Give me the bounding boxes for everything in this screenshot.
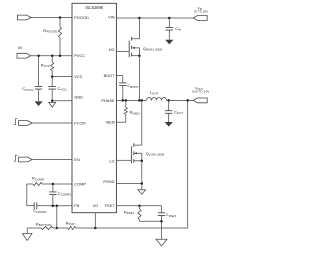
svg-text:BOOT: BOOT <box>104 73 116 78</box>
terminal VIN flag <box>193 6 208 20</box>
pin VIN <box>108 14 115 19</box>
wire VOUT feedback riser <box>187 100 189 228</box>
wire ISEN <box>116 121 125 123</box>
resistor RPGOOD <box>43 18 61 56</box>
wire EN <box>32 159 72 161</box>
node divider junction <box>56 227 59 230</box>
pin VO <box>92 203 98 208</box>
pin ISEN <box>106 120 115 125</box>
pin PHASE <box>101 98 115 103</box>
wire VO feedback bottom <box>76 227 188 229</box>
node phase/source junction <box>138 99 141 102</box>
svg-text:COUT: COUT <box>174 109 183 115</box>
node FB drop junction <box>56 204 59 207</box>
pin PGND <box>103 179 114 184</box>
capacitor COUT <box>165 100 183 122</box>
svg-text:CCOMP2: CCOMP2 <box>33 208 47 214</box>
wire COMP rail <box>42 183 72 185</box>
node phase/RISEN junction <box>125 99 128 102</box>
node phase/CBOOT junction <box>122 99 125 102</box>
terminal VOUT flag <box>192 86 209 102</box>
node VIN/drain junction <box>138 17 141 20</box>
wire PGOOD <box>31 17 72 19</box>
capacitor CVCC <box>49 77 68 101</box>
svg-text:QLOW_SIDE: QLOW_SIDE <box>146 151 165 157</box>
svg-text:PGND: PGND <box>103 179 114 184</box>
pin BOOT <box>104 73 116 78</box>
wire 5V rail to PVCC <box>31 55 72 57</box>
pin UG <box>109 47 115 52</box>
resistor RBOTTOM <box>27 221 53 229</box>
svg-text:CCOMP1: CCOMP1 <box>58 191 72 197</box>
pin PGOOD <box>74 15 89 20</box>
svg-text:RBOTTOM: RBOTTOM <box>36 221 52 227</box>
pin FB <box>74 203 79 208</box>
svg-text:3V TO 25V: 3V TO 25V <box>194 9 208 13</box>
svg-text:RFSET: RFSET <box>124 210 135 216</box>
ground CIN (solid) <box>165 40 173 45</box>
ground CPVCC (solid) <box>35 101 43 106</box>
svg-text:CPVCC: CPVCC <box>22 86 34 92</box>
svg-text:RCOMP: RCOMP <box>32 176 44 182</box>
wire FSET bottom rail <box>140 220 162 222</box>
wire high side source to phase <box>138 56 140 101</box>
svg-text:FCCM: FCCM <box>74 121 85 126</box>
inductor LOUT <box>147 90 167 101</box>
pin GND <box>74 94 83 99</box>
terminal PGOOD output flag <box>17 15 31 20</box>
pin FSET <box>105 203 116 208</box>
capacitor CBOOT <box>119 76 139 101</box>
node VOUT/feedback junction <box>186 99 189 102</box>
svg-text:PVCC: PVCC <box>74 53 85 58</box>
node 5V/CPVCC junction <box>37 54 40 57</box>
svg-text:CVCC: CVCC <box>58 86 68 92</box>
svg-text:QHIGH_SIDE: QHIGH_SIDE <box>143 46 162 52</box>
capacitor CPVCC <box>22 56 42 102</box>
svg-text:RVCC: RVCC <box>41 62 51 68</box>
svg-text:VCC: VCC <box>74 74 82 79</box>
wire inductor to VOUT <box>167 99 194 101</box>
node 5V/RVCC junction <box>51 54 54 57</box>
svg-text:PGOOD: PGOOD <box>74 15 89 20</box>
wire PHASE <box>116 99 146 101</box>
svg-text:VO: VO <box>92 203 98 208</box>
capacitor CIN <box>166 18 182 40</box>
svg-text:ISEN: ISEN <box>106 120 115 125</box>
node VOUT/COUT junction <box>167 99 170 102</box>
terminal EN input flag <box>14 155 32 162</box>
svg-text:RISEN: RISEN <box>130 110 140 116</box>
pin FCCM <box>74 121 85 126</box>
wire LG gate <box>116 159 131 161</box>
capacitor CFSET <box>158 206 177 222</box>
pin COMP <box>74 182 86 187</box>
node FB/CCOMP1 junction <box>52 204 55 207</box>
node GND junction <box>51 99 54 102</box>
node VO junction <box>94 227 97 230</box>
ground COUT (solid) <box>165 122 173 127</box>
wire VCC <box>52 76 72 78</box>
wire VIN rail <box>116 17 193 19</box>
wire BOOT <box>116 75 122 77</box>
capacitor CCOMP2 <box>27 202 72 214</box>
node COMP/CCOMP1 junction <box>52 183 55 186</box>
transistor QHIGH_SIDE <box>129 18 162 57</box>
resistor RFSET <box>124 206 141 222</box>
svg-text:VIN: VIN <box>108 14 115 19</box>
node VIN/CIN junction <box>168 17 171 20</box>
ground GND (open) <box>49 101 56 108</box>
pin VCC <box>74 74 82 79</box>
svg-text:LOUT: LOUT <box>150 90 159 96</box>
svg-text:RPGOOD: RPGOOD <box>43 28 58 34</box>
resistor RVCC <box>41 56 54 77</box>
resistor RCOMP <box>27 176 44 186</box>
terminal FCCM input flag <box>14 119 32 126</box>
wire divider middle <box>53 227 68 229</box>
resistor RISEN <box>124 100 139 122</box>
node phase/drain junction <box>141 99 144 102</box>
svg-text:PHASE: PHASE <box>101 98 115 103</box>
svg-text:FSET: FSET <box>105 203 116 208</box>
node 5V/RPGOOD junction <box>59 54 62 57</box>
svg-text:RTOP: RTOP <box>66 220 75 226</box>
svg-text:UG: UG <box>109 47 115 52</box>
wire FSET top rail <box>140 205 162 207</box>
svg-text:LG: LG <box>109 158 114 163</box>
pin EN <box>74 157 80 162</box>
svg-text:GND: GND <box>74 94 83 99</box>
svg-text:FB: FB <box>74 203 79 208</box>
wire UG gate <box>116 50 129 52</box>
ground FSET (open) <box>156 221 167 246</box>
node PGND junction <box>141 182 144 185</box>
ground divider (open) <box>22 228 32 241</box>
wire FSET <box>116 205 139 207</box>
wire FCCM <box>32 122 72 124</box>
terminal 5V input flag <box>17 46 31 58</box>
pin PVCC <box>74 53 85 58</box>
pin LG <box>109 158 114 163</box>
svg-text:0.6V TO 3.3V: 0.6V TO 3.3V <box>192 90 209 94</box>
resistor RTOP <box>66 220 76 229</box>
wire PGND <box>116 183 141 185</box>
wire GND pin to cap ground <box>52 100 72 102</box>
svg-text:ISL62698: ISL62698 <box>85 5 103 10</box>
ground PGND (open) <box>138 184 146 195</box>
node FSET junction <box>138 204 141 207</box>
node FSET ground junction <box>160 220 163 223</box>
node PGOOD pullup junction <box>59 16 62 19</box>
svg-text:CBOOT: CBOOT <box>127 83 139 89</box>
svg-text:CFSET: CFSET <box>166 212 177 218</box>
transistor QLOW_SIDE <box>131 100 164 183</box>
wire VO pin drop <box>94 213 96 228</box>
svg-text:EN: EN <box>74 157 80 162</box>
op-amp U1 ISL62698 buck controller IC body <box>72 3 116 212</box>
svg-text:CIN: CIN <box>175 26 181 32</box>
wire comp network left side <box>26 184 28 206</box>
svg-text:COMP: COMP <box>74 182 86 187</box>
wire FB to divider <box>56 206 58 228</box>
node VCC junction <box>51 75 54 78</box>
svg-text:5V: 5V <box>18 46 23 50</box>
capacitor CCOMP1 <box>49 184 71 206</box>
